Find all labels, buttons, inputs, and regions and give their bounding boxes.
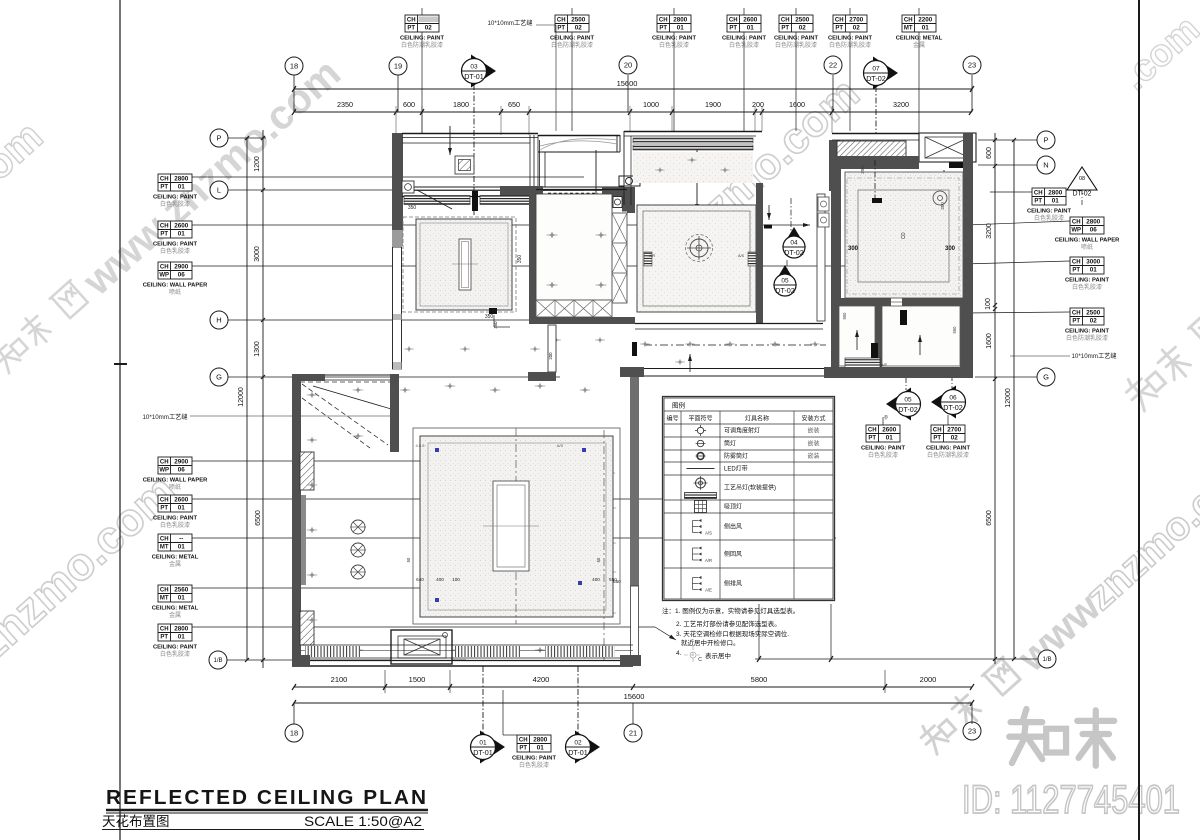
A/E vent hatch [845, 358, 880, 369]
grid bubble G right [1037, 368, 1055, 386]
sheet left border [119, 0, 121, 840]
svg-text:LED灯带: LED灯带 [724, 465, 748, 473]
H leader [228, 319, 574, 321]
section mark DT-01 bottom2 [575, 731, 600, 764]
wall below bedroom2 [529, 317, 635, 324]
black corner mark below bedroom1 [489, 308, 497, 314]
svg-text:600: 600 [403, 100, 415, 109]
svg-text:白色乳胶漆: 白色乳胶漆 [160, 521, 190, 529]
sheet right border [1138, 0, 1140, 840]
wall hallway right [548, 325, 556, 372]
door swing line [417, 190, 452, 209]
label box CH2500 top5 [779, 15, 813, 32]
svg-text:金属: 金属 [169, 560, 181, 568]
svg-text:900: 900 [842, 312, 847, 320]
top dim row 15600 [294, 88, 972, 90]
N right leader [978, 164, 1037, 166]
room A top wall double line [402, 133, 538, 135]
svg-text:CEILING: WALL PAPER: CEILING: WALL PAPER [1055, 238, 1120, 244]
svg-text:DT-02: DT-02 [784, 248, 804, 257]
grid bubble P left [210, 129, 228, 147]
arrow in toilet left [856, 330, 858, 350]
svg-text:2900: 2900 [174, 264, 189, 271]
svg-text:喷纸: 喷纸 [1081, 243, 1093, 251]
svg-text:CEILING: METAL: CEILING: METAL [152, 606, 199, 612]
svg-text:400: 400 [592, 577, 600, 582]
svg-text:15600: 15600 [624, 692, 645, 701]
svg-text:PT: PT [1034, 198, 1042, 204]
svg-text:01: 01 [178, 230, 186, 237]
grid bubble 22 top [824, 56, 842, 74]
bedroom2 top band [536, 189, 627, 191]
svg-text:01: 01 [537, 744, 545, 751]
balcony top right of room A [538, 135, 620, 137]
corridor bottom band below dining [635, 323, 823, 325]
niche box with circle [619, 176, 640, 186]
watermark band B (bottom-left corner), outline [0, 464, 186, 750]
svg-text:01: 01 [1052, 197, 1060, 204]
svg-text:2600: 2600 [882, 427, 897, 434]
label box CH2700 top6 [833, 15, 867, 32]
toilet left room [839, 306, 875, 366]
black bar at entry [632, 342, 637, 356]
svg-text:平面符号: 平面符号 [688, 415, 712, 423]
watermark logo ZHIMO bottom right [1009, 709, 1114, 766]
wall hatch bit 1 [393, 314, 402, 320]
corridor diamonds [551, 337, 561, 343]
AC diagonal hatch area [837, 141, 906, 164]
small arrow corridor [768, 205, 770, 220]
dining top hatch strips [633, 138, 753, 143]
dash row hatch foyer [548, 193, 598, 196]
living center dashdot lines [515, 428, 517, 624]
svg-text:06: 06 [949, 395, 957, 402]
svg-text:650: 650 [508, 100, 520, 109]
room A ceiling access square symbol [455, 156, 474, 174]
entry corridor bottom boundary [620, 367, 644, 377]
dining top wall [624, 131, 762, 133]
building bottom wall [292, 660, 633, 662]
grid bubble 21 bottom [624, 724, 642, 742]
black door bar toilets [871, 343, 878, 358]
svg-text:MT: MT [904, 25, 913, 31]
svg-text:喷纸: 喷纸 [169, 483, 181, 491]
svg-text:2500: 2500 [795, 17, 810, 24]
svg-text:CEILING: PAINT: CEILING: PAINT [153, 516, 197, 522]
svg-text:DT-02: DT-02 [943, 403, 963, 412]
svg-text:CH: CH [933, 428, 942, 434]
grid bubble 1/B left [209, 651, 227, 669]
grid stem [627, 75, 629, 112]
bathroom stipple area [845, 172, 963, 298]
P leader [228, 137, 266, 139]
svg-text:01: 01 [178, 504, 186, 511]
svg-text:5800: 5800 [751, 675, 768, 684]
svg-text:03: 03 [470, 64, 478, 71]
label box right CH2800 [1032, 188, 1066, 205]
label box CH2500 top2 [555, 15, 589, 32]
section mark DT-02 05 corridor [773, 265, 797, 285]
label box CH-/PT02 top1 [405, 15, 439, 32]
svg-text:23: 23 [968, 727, 976, 736]
arrow into bedroom2 [595, 150, 597, 211]
svg-text:10*10mm工艺缝: 10*10mm工艺缝 [1071, 352, 1116, 360]
svg-text:01: 01 [886, 434, 894, 441]
bedroom2 bottom X band [536, 300, 612, 317]
svg-text:DT-01: DT-01 [473, 748, 493, 757]
G leader [228, 376, 560, 378]
svg-text:01: 01 [479, 740, 487, 747]
svg-text:6500: 6500 [986, 510, 993, 526]
watermark band D (bottom-right long), mixed [916, 440, 1200, 765]
svg-text:CH: CH [407, 18, 416, 24]
grid stem [397, 75, 399, 112]
svg-text:注：1. 图例仅为示意，实物请参见灯具选型表。: 注：1. 图例仅为示意，实物请参见灯具选型表。 [662, 606, 799, 615]
dining chandelier [690, 239, 708, 257]
svg-text:G: G [216, 373, 222, 382]
svg-text:01: 01 [1090, 266, 1098, 273]
svg-text:吸顶灯: 吸顶灯 [724, 503, 742, 511]
legend symbols [697, 427, 703, 433]
band below room A [402, 186, 624, 188]
bedroom1 ceiling stipple [416, 219, 512, 310]
top dim row individual [294, 111, 972, 113]
svg-text:H: H [216, 316, 221, 325]
svg-text:2200: 2200 [918, 17, 933, 24]
svg-text:DT-02: DT-02 [898, 405, 918, 414]
bedroom1 dashed outer [403, 217, 516, 312]
label box CH2700 btm-right [931, 425, 965, 442]
dashdot into bathroom + black mark [874, 160, 876, 198]
dark wall stub below [622, 197, 633, 212]
svg-text:350: 350 [485, 314, 494, 320]
svg-text:白色乳胶漆: 白色乳胶漆 [1072, 283, 1102, 291]
section mark DT-01 bottom1 [480, 731, 505, 764]
svg-text:02: 02 [853, 24, 861, 31]
svg-text:MT: MT [160, 544, 169, 550]
svg-text:侧回风: 侧回风 [724, 550, 742, 558]
svg-text:MT: MT [160, 595, 169, 601]
svg-text:06: 06 [1090, 226, 1098, 233]
svg-text:2800: 2800 [174, 626, 189, 633]
legend table [663, 397, 835, 601]
leader to bathroom wallpaper [192, 265, 860, 267]
svg-text:18: 18 [290, 729, 298, 738]
bottom dim row 15600 [294, 702, 972, 704]
dark wall block hallway corner [528, 372, 556, 381]
svg-text:CH: CH [835, 18, 844, 24]
svg-text:4200: 4200 [533, 675, 550, 684]
elevator shaft top right [919, 133, 976, 162]
svg-text:CH: CH [1072, 220, 1081, 226]
left border tick [114, 363, 127, 365]
svg-text:2600: 2600 [743, 17, 758, 24]
svg-text:CEILING: PAINT: CEILING: PAINT [926, 446, 970, 452]
svg-text:A/R: A/R [705, 558, 712, 563]
foyer vertical line [539, 140, 541, 187]
svg-text:05: 05 [904, 397, 912, 404]
svg-text:1500: 1500 [409, 675, 426, 684]
svg-text:WP: WP [1071, 227, 1081, 233]
1/B leader [227, 659, 466, 661]
pilaster hatch 1 [300, 452, 314, 490]
svg-text:350: 350 [940, 202, 945, 210]
svg-text:嵌装: 嵌装 [807, 452, 819, 460]
svg-text:A/E: A/E [705, 588, 712, 593]
ext line [830, 604, 832, 660]
grid bubble L left [210, 181, 228, 199]
title bottom rule [102, 829, 424, 831]
svg-text:CH: CH [160, 224, 169, 230]
wall right of bedroom2 top [627, 187, 635, 213]
svg-text:CH: CH [160, 588, 169, 594]
label box CH2800 bottom [517, 735, 551, 752]
svg-text:19: 19 [394, 62, 402, 71]
black bar top right [949, 162, 963, 168]
svg-text:CH: CH [160, 498, 169, 504]
svg-text:3200: 3200 [893, 100, 909, 109]
niche box 2 [613, 197, 622, 208]
svg-text:A/S: A/S [557, 443, 564, 448]
L leader [228, 189, 584, 191]
svg-text:550: 550 [952, 326, 957, 334]
svg-text:PT: PT [1072, 318, 1080, 324]
P right leader [978, 139, 1037, 141]
svg-text:06: 06 [178, 466, 186, 473]
svg-text:防雾筒灯: 防雾筒灯 [724, 452, 748, 460]
living right wall [630, 377, 639, 586]
watermark band F (right edge), solid [1118, 187, 1200, 421]
svg-text:2700: 2700 [947, 427, 962, 434]
svg-text:10*10mm工艺缝: 10*10mm工艺缝 [487, 19, 532, 27]
svg-text:CH: CH [659, 18, 668, 24]
svg-text:侧排风: 侧排风 [724, 580, 742, 588]
svg-text:CH: CH [729, 18, 738, 24]
svg-text:20: 20 [624, 61, 632, 70]
svg-text:18: 18 [290, 62, 298, 71]
bathroom left wall dark [831, 169, 841, 303]
blue grips [435, 448, 439, 452]
section mark DT-02 04 corridor [782, 227, 806, 247]
svg-text:PT: PT [781, 25, 789, 31]
svg-text:WP: WP [159, 272, 169, 278]
svg-text:PT: PT [160, 231, 168, 237]
watermark band E (upper middle right), outline [658, 69, 869, 266]
svg-text:编号: 编号 [666, 415, 678, 423]
svg-text:2100: 2100 [331, 675, 348, 684]
corridor dashdot vertical [790, 198, 792, 234]
svg-text:PT: PT [835, 25, 843, 31]
svg-text:CEILING: PAINT: CEILING: PAINT [512, 756, 556, 762]
svg-text:1800: 1800 [453, 100, 469, 109]
dark wall block in band [500, 186, 543, 197]
living pendant lights x3 [351, 520, 365, 534]
grid bubble 1/B right [1038, 650, 1056, 668]
svg-text:CEILING: PAINT: CEILING: PAINT [1065, 278, 1109, 284]
grid bubble 19 top [389, 57, 407, 75]
title underline thin [106, 812, 428, 814]
svg-text:4.5.5: 4.5.5 [416, 443, 426, 448]
svg-text:50: 50 [406, 557, 411, 562]
svg-text:08: 08 [1079, 176, 1085, 182]
svg-text:CEILING: METAL: CEILING: METAL [152, 555, 199, 561]
svg-text:工艺吊灯(软装提供): 工艺吊灯(软装提供) [724, 484, 776, 492]
left dim column [262, 130, 264, 668]
svg-text:01: 01 [677, 24, 685, 31]
right wall toilets [960, 306, 972, 371]
living left wall dark [292, 381, 301, 664]
svg-text:1/B: 1/B [1042, 657, 1051, 663]
svg-text:1900: 1900 [705, 100, 721, 109]
svg-text:2000: 2000 [920, 675, 937, 684]
svg-text:A/R: A/R [649, 254, 656, 258]
svg-text:表示居中: 表示居中 [705, 651, 731, 660]
label box left CH2900 [158, 262, 192, 279]
left wall toilets [831, 306, 839, 371]
arrow into bathroom [860, 200, 862, 237]
svg-text:N: N [1043, 161, 1048, 170]
svg-text:1200: 1200 [254, 156, 261, 172]
svg-text:2500: 2500 [1086, 310, 1101, 317]
svg-text:05: 05 [781, 278, 789, 285]
svg-text:灯具名称: 灯具名称 [745, 415, 769, 423]
svg-text:1300: 1300 [254, 341, 261, 357]
svg-text:DT-01: DT-01 [464, 72, 484, 81]
dining ceiling rect [637, 205, 756, 312]
svg-text:3000: 3000 [254, 246, 261, 262]
svg-text:2800: 2800 [673, 17, 688, 24]
svg-text:天花布置图: 天花布置图 [102, 814, 170, 829]
svg-text:PT: PT [729, 25, 737, 31]
svg-text:2800: 2800 [533, 737, 548, 744]
living perimeter diamonds [307, 392, 317, 399]
svg-text:200: 200 [548, 352, 553, 360]
svg-text:04: 04 [790, 240, 798, 247]
svg-text:筒灯: 筒灯 [724, 440, 736, 448]
svg-text:白色乳胶漆: 白色乳胶漆 [1034, 214, 1064, 222]
svg-text:安装方式: 安装方式 [801, 415, 825, 423]
svg-text:PT: PT [160, 634, 168, 640]
svg-text:1000: 1000 [643, 100, 659, 109]
svg-text:2500: 2500 [571, 17, 586, 24]
elevator bottom left [391, 630, 452, 664]
svg-text:2700: 2700 [849, 17, 864, 24]
balcony curtain curves [540, 139, 618, 150]
svg-text:WP: WP [159, 467, 169, 473]
svg-text:参: 参 [884, 414, 889, 421]
svg-text:01: 01 [922, 24, 930, 31]
bathroom top wall dark [831, 156, 919, 169]
right overall dim 12000 [1013, 140, 1015, 659]
corridor right wall with appliance boxes [817, 194, 825, 321]
svg-text:2. 工艺吊灯部份请参见配饰选型表。: 2. 工艺吊灯部份请参见配饰选型表。 [676, 619, 781, 628]
label box CH2800 top3 [657, 15, 691, 32]
foyer vertical line2 [544, 152, 546, 187]
svg-text:白色乳胶漆: 白色乳胶漆 [160, 247, 190, 255]
bathroom bottom wall with door [831, 298, 891, 306]
label box right CH2500 [1070, 308, 1104, 325]
svg-text:白色乳胶漆: 白色乳胶漆 [519, 761, 549, 769]
svg-text:12000: 12000 [238, 387, 245, 407]
label box CH2600 btm-right [866, 425, 900, 442]
label box left CH2600 [158, 221, 192, 238]
label box CH2200 top7 [902, 15, 936, 32]
svg-text:ID: 1127745401: ID: 1127745401 [962, 778, 1180, 822]
svg-text:01: 01 [747, 24, 755, 31]
svg-text:CH: CH [781, 18, 790, 24]
svg-text:100: 100 [985, 298, 992, 310]
dining left wall line [623, 131, 625, 205]
bedroom2 interior [536, 194, 612, 300]
svg-text:CH: CH [160, 265, 169, 271]
svg-text:CH: CH [904, 18, 913, 24]
bedroom1 center light fixture [459, 239, 471, 290]
svg-text:L: L [217, 186, 221, 195]
svg-text:22: 22 [829, 61, 837, 70]
svg-text:A/S: A/S [738, 254, 745, 258]
label box left2 CH2900 [158, 457, 192, 474]
svg-text:2600: 2600 [174, 497, 189, 504]
section mark DT-02 05 bottom right [886, 388, 911, 421]
svg-text:6500: 6500 [255, 510, 262, 526]
svg-text:PT: PT [1072, 267, 1080, 273]
arrow into bath top [943, 170, 945, 200]
svg-text:CEILING: PAINT: CEILING: PAINT [153, 645, 197, 651]
svg-text:300: 300 [848, 246, 859, 252]
svg-text:P: P [216, 134, 221, 143]
room A right window wall [529, 135, 531, 188]
bathroom fan symbol top right [933, 191, 947, 205]
1/B right leader [755, 658, 1038, 660]
svg-text:1600: 1600 [789, 100, 805, 109]
grid stem [971, 75, 973, 112]
grid stem bottom [293, 703, 295, 724]
svg-text:CEILING: PAINT: CEILING: PAINT [1065, 329, 1109, 335]
svg-text:CH: CH [1034, 191, 1043, 197]
middle wall toilets [875, 306, 882, 371]
svg-text:CEILING: PAINT: CEILING: PAINT [861, 446, 905, 452]
svg-text:CH: CH [160, 177, 169, 183]
arrow into dining [696, 150, 698, 211]
svg-text:2800: 2800 [174, 176, 189, 183]
svg-text:--: -- [179, 536, 183, 543]
svg-text:PT: PT [519, 745, 527, 751]
leader stems from top label boxes [421, 8, 423, 15]
living door swing diagonal [313, 386, 398, 411]
corridor centerline dashdot right [644, 344, 826, 346]
svg-text:嵌装: 嵌装 [807, 427, 819, 435]
dining upper stipple [633, 152, 753, 183]
svg-text:02: 02 [799, 24, 807, 31]
svg-text:CH: CH [1072, 260, 1081, 266]
label box CH2600 top4 [727, 15, 761, 32]
watermark band G (top-right corner), outline [1114, 8, 1200, 99]
svg-text:SCALE 1:50@A2: SCALE 1:50@A2 [304, 814, 422, 829]
svg-text:REFLECTED CEILING PLAN: REFLECTED CEILING PLAN [106, 786, 428, 809]
label box left CH-- metal [158, 534, 192, 551]
bay dashed lines [302, 384, 388, 445]
svg-text:CH: CH [160, 537, 169, 543]
svg-text:DT-02: DT-02 [866, 74, 886, 83]
grid stem bottom [971, 703, 973, 724]
svg-text:白色防潮乳胶漆: 白色防潮乳胶漆 [927, 451, 969, 459]
svg-text:白色乳胶漆: 白色乳胶漆 [868, 451, 898, 459]
svg-text:DT-01: DT-01 [568, 748, 588, 757]
svg-text:白色防潮乳胶漆: 白色防潮乳胶漆 [1066, 334, 1108, 342]
label box right CH2800 WP [1070, 217, 1104, 234]
svg-text:PT: PT [407, 25, 415, 31]
svg-text:2800: 2800 [1048, 190, 1063, 197]
